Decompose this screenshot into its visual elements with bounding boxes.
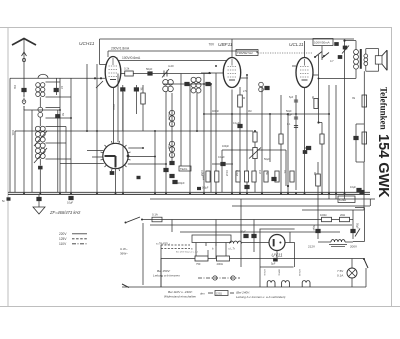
svg-text:154 GWK: 154 GWK <box>375 134 391 198</box>
svg-text:400pF: 400pF <box>212 110 220 113</box>
svg-text:0.1µF: 0.1µF <box>218 155 225 159</box>
svg-text:UCL11: UCL11 <box>263 269 265 276</box>
svg-text:220V: 220V <box>59 232 67 236</box>
svg-text:400Ω: 400Ω <box>217 262 223 266</box>
svg-text:0.2k: 0.2k <box>167 144 170 149</box>
svg-text:UCL11: UCL11 <box>289 42 304 48</box>
svg-text:L.Tr: L.Tr <box>231 248 236 251</box>
svg-text:Leitung a-b trennen: Leitung a-b trennen <box>153 274 180 278</box>
svg-text:0.1A: 0.1A <box>337 274 344 278</box>
svg-text:7mA: 7mA <box>112 104 116 110</box>
svg-text:TR6/5ETH2: TR6/5ETH2 <box>237 51 253 55</box>
svg-text:50µF: 50µF <box>264 158 270 161</box>
svg-text:0.1µF: 0.1µF <box>233 122 240 125</box>
svg-text:212V: 212V <box>308 245 315 249</box>
svg-text:0.1: 0.1 <box>283 170 287 174</box>
svg-text:Bei 150V:: Bei 150V: <box>157 269 171 273</box>
svg-text:0.2M: 0.2M <box>200 170 204 176</box>
svg-text:50µF: 50µF <box>312 225 315 231</box>
svg-text:200V/1.8mA: 200V/1.8mA <box>111 47 130 51</box>
svg-text:Bei 110V u. 240V:: Bei 110V u. 240V: <box>168 290 193 294</box>
svg-text:4.7: 4.7 <box>330 59 334 63</box>
svg-text:100Ω: 100Ω <box>320 213 327 217</box>
svg-text:1M: 1M <box>258 170 262 174</box>
svg-text:2.5: 2.5 <box>243 90 247 93</box>
svg-text:4-20: 4-20 <box>168 64 174 68</box>
svg-text:125Ω: 125Ω <box>216 291 222 295</box>
svg-text:UBF11: UBF11 <box>218 42 233 48</box>
svg-text:125V: 125V <box>59 237 67 241</box>
svg-text:UCH11: UCH11 <box>79 41 95 47</box>
svg-text:70V: 70V <box>209 43 216 47</box>
svg-text:100V/50mA: 100V/50mA <box>314 41 330 45</box>
svg-text:0.1A: 0.1A <box>152 213 158 217</box>
svg-text:0.01: 0.01 <box>11 130 15 136</box>
svg-text:0.2k: 0.2k <box>124 67 130 71</box>
svg-text:TEAG: TEAG <box>180 167 187 171</box>
svg-text:UCH11: UCH11 <box>298 269 300 277</box>
svg-text:(Bei 240V:: (Bei 240V: <box>236 291 250 295</box>
svg-text:200V: 200V <box>350 245 357 249</box>
svg-text:100pF: 100pF <box>222 145 230 148</box>
svg-text:400pF: 400pF <box>177 181 185 185</box>
svg-text:10µF: 10µF <box>240 230 246 234</box>
svg-text:Bei 125V Steg 1-2 u. 3-4: Bei 125V Steg 1-2 u. 3-4 <box>176 251 199 254</box>
svg-text:110V: 110V <box>59 242 67 246</box>
svg-text:10µF: 10µF <box>67 201 74 205</box>
svg-text:20Ω: 20Ω <box>340 213 345 217</box>
svg-text:den: den <box>200 292 205 296</box>
svg-text:50µF: 50µF <box>356 223 359 229</box>
svg-text:5µF: 5µF <box>289 96 294 99</box>
svg-text:7.5V: 7.5V <box>337 269 344 273</box>
svg-text:750: 750 <box>196 262 201 266</box>
svg-text:0.5µF: 0.5µF <box>202 187 209 190</box>
svg-text:1W: 1W <box>13 85 17 89</box>
svg-text:10µF: 10µF <box>350 185 356 189</box>
svg-text:U.W~: U.W~ <box>120 247 128 251</box>
svg-text:UBF11: UBF11 <box>278 269 280 276</box>
svg-text:4Ω: 4Ω <box>313 172 316 175</box>
svg-text:0.3M: 0.3M <box>235 170 239 176</box>
svg-text:4M: 4M <box>248 110 251 113</box>
svg-text:Widerstand einschalten: Widerstand einschalten <box>164 295 196 299</box>
svg-text:36W~: 36W~ <box>120 252 128 256</box>
svg-text:100V/0.6mA: 100V/0.6mA <box>122 56 141 60</box>
svg-text:0.1M: 0.1M <box>225 170 229 176</box>
svg-text:Leitung b-c trennen u. a-b ver: Leitung b-c trennen u. a-b verbinden) <box>236 295 285 299</box>
svg-text:Telefunken: Telefunken <box>379 87 389 130</box>
svg-text:6.2kΩ: 6.2kΩ <box>339 198 346 202</box>
svg-text:M: M <box>243 97 245 100</box>
svg-text:Bei 220V St.1-2: Bei 220V St.1-2 <box>156 243 171 246</box>
svg-text:0.3-0.6: 0.3-0.6 <box>167 112 170 120</box>
svg-text:ZF=468/473 kHz: ZF=468/473 kHz <box>49 210 80 215</box>
svg-text:50pF: 50pF <box>146 67 153 71</box>
svg-text:5µF: 5µF <box>271 263 276 266</box>
